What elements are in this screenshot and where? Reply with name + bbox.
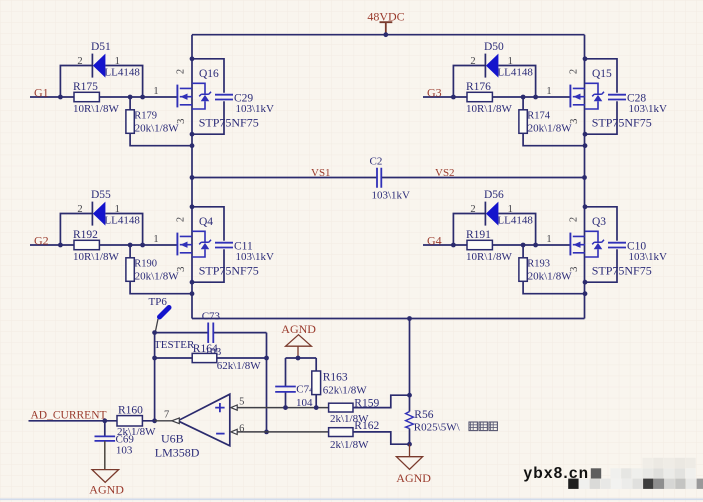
svg-text:Q4: Q4 [199, 216, 213, 228]
capacitor C74 [275, 358, 296, 408]
svg-text:2: 2 [568, 217, 579, 222]
svg-text:1: 1 [153, 234, 158, 245]
svg-text:103\1kV: 103\1kV [236, 103, 275, 115]
svg-text:LL4148: LL4148 [497, 66, 533, 78]
svg-text:3: 3 [176, 119, 187, 124]
svg-text:20k\1/8W: 20k\1/8W [135, 270, 180, 282]
junctions input network [283, 405, 319, 410]
svg-text:R179: R179 [134, 111, 157, 122]
svg-text:6: 6 [239, 423, 244, 434]
wire branch down to R56 node [409, 319, 411, 396]
wire D55 branch loop [60, 214, 142, 246]
svg-text:Q15: Q15 [592, 68, 612, 80]
svg-text:5: 5 [239, 397, 244, 408]
svg-text:R175: R175 [73, 81, 98, 93]
svg-text:103: 103 [116, 445, 133, 457]
svg-text:2: 2 [77, 204, 82, 215]
svg-text:R162: R162 [354, 420, 379, 432]
pin 6 inverting input (U6B) [231, 423, 329, 434]
junctions Q15 drain/source rail [583, 56, 588, 148]
svg-text:2: 2 [470, 56, 475, 67]
wire bottom sense rail (Q4/Q3 sources to R56) [192, 318, 585, 320]
transistor Q3 STP75NF75 [570, 231, 604, 257]
wire right half-bridge rail (Q15/Q3 column) [584, 35, 586, 319]
wire feedback right vertical to pin 6 [266, 333, 268, 432]
svg-text:62k\1/8W: 62k\1/8W [217, 360, 262, 372]
ground AGND (below R56) [396, 444, 431, 485]
svg-text:D55: D55 [91, 189, 111, 201]
resistor R162 2k [329, 428, 353, 437]
svg-text:2k\1/8W: 2k\1/8W [330, 439, 369, 451]
wire G3 gate net [423, 96, 570, 98]
svg-text:1: 1 [546, 234, 551, 245]
svg-text:LL4148: LL4148 [497, 214, 533, 226]
svg-text:20k\1/8W: 20k\1/8W [528, 270, 573, 282]
svg-text:R164: R164 [193, 343, 218, 355]
junctions G3 net [451, 95, 538, 100]
svg-text:D51: D51 [91, 41, 111, 53]
svg-text:10R\1/8W: 10R\1/8W [466, 251, 512, 263]
junction VS2 at right rail [582, 175, 587, 180]
svg-text:LL4148: LL4148 [104, 214, 140, 226]
svg-text:R56: R56 [414, 409, 433, 421]
resistor R163 62k [312, 358, 321, 408]
svg-text:U6B: U6B [161, 432, 184, 446]
svg-text:62k\1/8W: 62k\1/8W [323, 385, 368, 397]
wire R159 to R56 top [353, 395, 410, 407]
power 48VDC [367, 9, 404, 34]
resistor R159 2k [329, 403, 353, 412]
svg-text:C73: C73 [202, 310, 221, 322]
junctions R56 [407, 393, 412, 447]
svg-text:TP6: TP6 [149, 296, 168, 308]
wire C73 top branch [155, 332, 267, 334]
svg-text:R163: R163 [323, 372, 348, 384]
capacitor C2 [377, 168, 381, 188]
svg-text:103\1kV: 103\1kV [629, 103, 668, 115]
capacitor C69 [95, 421, 116, 470]
svg-text:20k\1/8W: 20k\1/8W [528, 122, 573, 134]
bottom window edge line [0, 498, 703, 500]
svg-text:10R\1/8W: 10R\1/8W [73, 251, 119, 263]
svg-text:G4: G4 [427, 233, 442, 247]
capacitor C11 snubber branch [192, 207, 233, 282]
ground AGND (above C74) [281, 322, 316, 358]
svg-text:VS2: VS2 [435, 167, 455, 179]
svg-text:G1: G1 [34, 85, 49, 99]
resistor R160 2k [117, 416, 142, 426]
svg-text:10R\1/8W: 10R\1/8W [73, 103, 119, 115]
svg-text:R193: R193 [527, 259, 550, 270]
svg-text:R190: R190 [134, 259, 157, 270]
svg-text:AD_CURRENT: AD_CURRENT [31, 409, 107, 421]
diode D56 LL4148 [485, 202, 498, 226]
wire D56 branch loop [453, 214, 535, 246]
junctions Q4 drain/source rail [190, 204, 195, 296]
svg-text:C2: C2 [370, 155, 383, 167]
svg-text:3: 3 [569, 119, 580, 124]
svg-text:VS1: VS1 [311, 167, 331, 179]
value R025\5W\kangtongsi (R56) [414, 422, 498, 434]
svg-text:103\1kV: 103\1kV [372, 190, 411, 202]
svg-text:3: 3 [176, 267, 187, 272]
pin 7 output (U6B) [155, 410, 180, 424]
resistor R192 10R [74, 240, 99, 249]
resistor R164 62k [192, 353, 217, 362]
wire D51 branch loop [60, 66, 142, 98]
svg-text:R174: R174 [527, 111, 551, 122]
svg-text:R191: R191 [466, 229, 491, 241]
wire R162 to R56 bottom [353, 432, 410, 444]
svg-text:STP75NF75: STP75NF75 [592, 264, 652, 278]
capacitor C73 [208, 323, 213, 344]
svg-text:LM358D: LM358D [155, 446, 200, 460]
svg-text:103\1kV: 103\1kV [236, 251, 275, 263]
svg-text:10R\1/8W: 10R\1/8W [466, 103, 512, 115]
svg-text:20k\1/8W: 20k\1/8W [135, 122, 180, 134]
svg-text:STP75NF75: STP75NF75 [199, 116, 259, 130]
wire G4 gate net [423, 244, 570, 246]
svg-text:LL4148: LL4148 [104, 66, 140, 78]
svg-text:2: 2 [470, 204, 475, 215]
junction 48VDC on rail [383, 32, 388, 37]
svg-text:2: 2 [175, 69, 186, 74]
svg-text:TESTER: TESTER [154, 339, 195, 351]
wire C74/R163 top bar [286, 357, 317, 359]
junctions Q3 drain/source rail [583, 204, 588, 296]
svg-text:AGND: AGND [281, 322, 316, 336]
resistor R179 20k [126, 97, 192, 146]
junctions G1 net [58, 95, 145, 100]
wire TESTER vertical (op-amp output net) [154, 333, 156, 421]
resistor R175 10R [74, 92, 99, 101]
svg-text:D50: D50 [484, 41, 504, 53]
svg-text:2: 2 [175, 217, 186, 222]
junction VS1 at left rail [190, 175, 195, 180]
junction bottom rail at R56 branch [407, 316, 412, 321]
capacitor C29 snubber branch [192, 59, 233, 134]
svg-text:1: 1 [508, 56, 513, 67]
wire G2 gate net [30, 244, 177, 246]
wire 48VDC top rail [192, 34, 585, 36]
svg-text:STP75NF75: STP75NF75 [592, 116, 652, 130]
svg-text:Q16: Q16 [199, 68, 219, 80]
svg-text:G2: G2 [34, 233, 49, 247]
junctions G2 net [58, 243, 145, 248]
junction C69 tap [102, 418, 107, 423]
svg-text:Q3: Q3 [592, 216, 606, 228]
pin 5 non-inverting input (U6B) [231, 397, 329, 411]
svg-text:D56: D56 [484, 189, 504, 201]
resistor R176 10R [467, 92, 492, 101]
svg-text:103\1kV: 103\1kV [629, 251, 668, 263]
resistor R191 10R [467, 240, 492, 249]
wire AD_CURRENT to R160 [29, 420, 155, 422]
op-amp U6B LM358D [178, 394, 230, 446]
svg-text:STP75NF75: STP75NF75 [199, 264, 259, 278]
svg-text:R025\5W\: R025\5W\ [414, 422, 461, 434]
junction AGND tap [296, 356, 301, 361]
svg-text:48VDC: 48VDC [367, 9, 404, 23]
svg-text:3: 3 [569, 267, 580, 272]
svg-text:1: 1 [153, 86, 158, 97]
transistor Q15 STP75NF75 [570, 83, 604, 109]
svg-text:AGND: AGND [89, 482, 124, 496]
capacitor C10 snubber branch [585, 207, 626, 282]
wire G1 gate net [30, 96, 177, 98]
transistor Q4 STP75NF75 [177, 231, 211, 257]
diode D50 LL4148 [485, 54, 498, 78]
svg-text:7: 7 [164, 410, 169, 421]
svg-text:2: 2 [77, 56, 82, 67]
transistor Q16 STP75NF75 [177, 83, 211, 109]
svg-text:2: 2 [568, 69, 579, 74]
svg-text:G3: G3 [427, 85, 442, 99]
test point TP6 [155, 308, 169, 333]
junctions TESTER net [152, 330, 269, 434]
svg-text:1: 1 [546, 86, 551, 97]
junctions G4 net [451, 243, 538, 248]
svg-text:1: 1 [115, 56, 120, 67]
svg-text:R192: R192 [73, 229, 98, 241]
wire VS2 (C2 to Q15 source) [381, 177, 584, 179]
resistor R190 20k [126, 245, 192, 294]
capacitor C28 snubber branch [585, 59, 626, 134]
ground AGND (below C69) [89, 470, 124, 497]
svg-text:1: 1 [508, 204, 513, 215]
svg-text:R176: R176 [466, 81, 491, 93]
svg-text:AGND: AGND [396, 471, 431, 485]
resistor R56 shunt R025 [406, 395, 414, 444]
diode D55 LL4148 [92, 202, 105, 226]
svg-text:R160: R160 [118, 404, 143, 416]
wire VS1 (Q16 source to C2) [192, 177, 377, 179]
diode D51 LL4148 [92, 54, 105, 78]
svg-text:1: 1 [115, 204, 120, 215]
resistor R193 20k [519, 245, 585, 294]
watermark mosaic blocks [568, 458, 703, 489]
wire left half-bridge rail (Q16/Q4 drain-source column) [191, 35, 193, 319]
junctions Q16 drain/source rail [190, 56, 195, 148]
wire D50 branch loop [453, 66, 535, 98]
resistor R174 20k [519, 97, 585, 146]
wire R164 branch [155, 357, 267, 359]
